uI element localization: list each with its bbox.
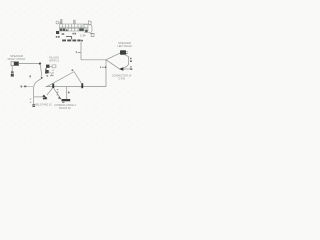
connector pair C5 (bullet splice) (42, 95, 47, 100)
antenna block feet (62, 102, 64, 103)
wire: junction C diagonal down to bullet (106, 60, 119, 69)
label 1 at apex (72, 69, 74, 71)
wire: C6 tail (123, 68, 130, 70)
label ticks beside drop wire (30, 99, 31, 103)
connector J1 (radio harness inline connector, top) (56, 21, 88, 31)
svg-text:SPKR 12: SPKR 12 (49, 60, 60, 63)
wire: tap diagonal from bus to apex (left leg) (47, 72, 75, 87)
splice S2 (81, 83, 83, 88)
label 4 with leader (left of bus) (21, 86, 23, 88)
speaker left-rear connector P4 (120, 50, 128, 55)
wire: junction C down to bus corner (105, 60, 107, 87)
wire: main bus (horizontal) (46, 86, 107, 88)
connector J1 pin towers (top edge) (60, 20, 75, 24)
connector J1 lower latch bar (66, 37, 72, 40)
label 2 (beside drop) (68, 92, 70, 94)
legend wire code marks (row 3) (46, 75, 53, 77)
node A (junction dot) (39, 63, 41, 65)
wire: P2 to junction A (19, 63, 40, 65)
wire: loop continues to lower connector run (34, 79, 42, 97)
wire: splice S1 diagonal to antenna block (54, 88, 61, 99)
wire: junction A down with service loop (S-curve) (40, 64, 42, 77)
wire: junction C diagonal up to rear speaker connector (106, 53, 121, 60)
label tick column (beside diagonal) (57, 89, 59, 95)
connector J1 filled cavities (60, 28, 88, 32)
wire: corner to junction C (81, 59, 106, 61)
wire: C5 up to splice S1 (47, 88, 53, 95)
label J1 part no (73, 33, 77, 35)
antenna lead arrowhead (58, 96, 61, 99)
label 1 (end of tail) (130, 66, 132, 70)
wire: apex to splice S2 (right leg) (74, 72, 82, 85)
legend connector pair icon (row 1) (46, 65, 56, 68)
connector J1 cavity ID row (dark segmented bar) (62, 40, 83, 42)
terminal T2 (end of drop) (32, 104, 35, 107)
antenna module block (dark bar) (62, 99, 71, 101)
splice S1 (52, 84, 54, 89)
wire: vertical drop to antenna ground lead (33, 97, 35, 104)
svg-text:WELD TAKE 10: WELD TAKE 10 (35, 103, 53, 106)
label pin numbers (left of J1) (56, 36, 60, 38)
svg-text:BLOCK 20: BLOCK 20 (59, 107, 71, 110)
svg-text:C-345: C-345 (118, 77, 125, 80)
connector J1 left end cap (dark square) (56, 31, 59, 34)
node B (bus left vertical blob) (45, 68, 47, 73)
wire: branch to bullet connector pair (34, 96, 43, 98)
wire: bus drop to antenna block (66, 87, 68, 99)
legend terminal icon (row 2) (46, 70, 54, 76)
wire loop arrow marker (41, 77, 43, 79)
label 1 with tick (beside strip drop) (76, 51, 81, 53)
wire: P4 lead down (124, 55, 129, 68)
label 1 arrow (points at vertical) (100, 66, 105, 68)
speaker right-front connector P2 (11, 62, 19, 66)
connector J1 left cap lower marks (62, 33, 65, 35)
connector J1 right shell appendage (84, 21, 94, 37)
label 1 (beside loop) (30, 75, 31, 77)
wire: strip drop (J1 to corner) (80, 42, 82, 60)
bullet connector pair C6 (arrow) (119, 67, 124, 71)
label 14 (beside lead) (130, 58, 132, 62)
stub terminal T1 (11, 71, 14, 76)
svg-text:RIGHT FRONT: RIGHT FRONT (8, 57, 26, 61)
speaker P2 drain stub wire (11, 66, 13, 72)
svg-text:LEFT REAR: LEFT REAR (117, 44, 131, 48)
svg-text:C-34: C-34 (80, 35, 86, 38)
